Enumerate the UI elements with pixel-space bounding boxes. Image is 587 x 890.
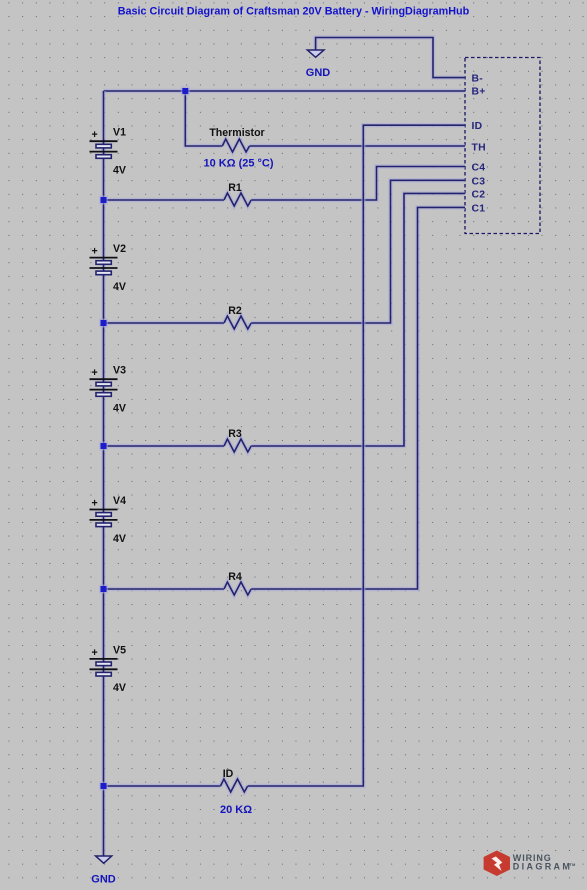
svg-text:+: + [92,647,98,659]
node junction R1 [99,196,108,205]
thermistor RT1 [222,139,249,152]
wire ground top to B- [316,38,465,78]
svg-text:TM: TM [570,862,576,867]
battery V4 [90,495,127,545]
svg-text:V5: V5 [113,644,126,656]
battery V1 [90,127,127,177]
svg-text:TH: TH [472,142,486,153]
wire R4 to C1 [251,207,465,589]
resistor ID [221,779,248,792]
wire R3 to C2 [251,193,465,446]
svg-text:C1: C1 [472,203,486,214]
resistor R4 [224,582,251,595]
wire battery chain vertical [101,91,105,856]
svg-text:ID: ID [472,121,483,132]
wire top bus B+ [104,89,466,93]
svg-text:C2: C2 [472,189,486,200]
svg-text:4V: 4V [113,682,126,694]
wire ID to ID pin [248,125,465,786]
svg-text:10 KΩ (25 °C): 10 KΩ (25 °C) [203,157,273,169]
wire thermistor to TH pin [250,144,466,148]
svg-text:+: + [92,246,98,258]
resistor R1 [224,193,251,206]
svg-text:4V: 4V [113,533,126,545]
svg-text:Basic Circuit Diagram of Craft: Basic Circuit Diagram of Craftsman 20V B… [118,5,470,17]
resistor R3 [224,439,251,452]
wire R3 row left [104,444,225,448]
wire R2 to C3 [251,180,465,323]
node junction R3 [99,442,108,451]
wire thermistor branch [185,91,222,146]
wire ID row left [104,784,221,788]
battery V2 [90,243,127,293]
svg-text:R3: R3 [228,428,242,440]
svg-text:C4: C4 [472,163,486,174]
svg-text:V1: V1 [113,127,126,139]
svg-text:4V: 4V [113,165,126,177]
svg-text:Thermistor: Thermistor [209,127,264,139]
svg-text:+: + [92,498,98,510]
node junction ID [99,782,108,791]
svg-text:ID: ID [223,768,234,780]
svg-text:V2: V2 [113,243,126,255]
svg-text:GND: GND [306,67,331,79]
wire R1 row left [104,198,225,202]
svg-text:R4: R4 [228,571,242,583]
battery V5 [90,644,127,694]
svg-text:+: + [92,367,98,379]
svg-text:V4: V4 [113,495,126,507]
node junction at thermistor branch [181,87,190,96]
connector J1 (dashed box) [465,58,540,234]
svg-text:4V: 4V [113,403,126,415]
battery V3 [90,365,127,415]
svg-text:B+: B+ [472,86,486,97]
svg-text:20 KΩ: 20 KΩ [220,804,252,816]
logo WiringDiagramHub [484,851,576,877]
svg-text:4V: 4V [113,281,126,293]
node junction R2 [99,319,108,328]
wire R4 row left [104,587,225,591]
svg-text:GND: GND [91,874,116,886]
svg-text:V3: V3 [113,365,126,377]
svg-text:DIAGRAM: DIAGRAM [513,862,572,872]
wire R1 to C4 [251,167,465,201]
svg-text:+: + [92,129,98,141]
svg-text:C3: C3 [472,176,486,187]
svg-text:B-: B- [472,74,484,85]
ground bottom symbol [96,856,112,863]
resistor R2 [224,316,251,329]
svg-text:R1: R1 [228,182,242,194]
svg-text:R2: R2 [228,305,242,317]
wire R2 row left [104,321,225,325]
ground top symbol [307,50,324,57]
node junction R4 [99,585,108,594]
